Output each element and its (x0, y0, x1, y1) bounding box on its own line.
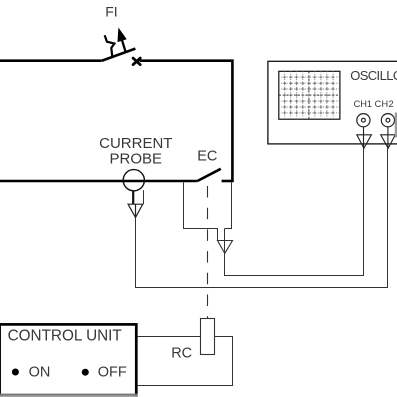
current probe circle (123, 170, 144, 191)
current probe arrow (128, 204, 143, 217)
breaker FI blade (101, 49, 135, 61)
svg-text:OSCILLOSCOPE: OSCILLOSCOPE (350, 68, 397, 83)
device under test enclosure (big rectangle, cut off at left) (0, 59, 234, 181)
indicator OFF (82, 369, 89, 376)
breaker FI contact x mark (133, 58, 140, 65)
oscilloscope screen (279, 71, 340, 119)
control unit box (0, 324, 136, 397)
wire probe center through apex down to CH1 bus (225, 148, 364, 275)
breaker FI actuator arrow (122, 39, 126, 52)
gray edge artifact right side (395, 113, 397, 138)
switch EC blade (197, 169, 220, 181)
wire EC left contact down to probe (184, 183, 218, 241)
relay coil RC (201, 319, 215, 355)
svg-text:CH1: CH1 (354, 99, 372, 109)
current probe lead thick (132, 192, 134, 205)
svg-text:FI: FI (105, 3, 117, 19)
svg-text:PROBE: PROBE (110, 151, 163, 168)
svg-text:ON: ON (29, 364, 51, 380)
breaker FI release squiggle (105, 35, 115, 57)
BNC connector CH1 (357, 114, 370, 127)
wire current probe down to CH2 bus (136, 148, 388, 287)
oscilloscope box (268, 61, 397, 144)
svg-text:OFF: OFF (98, 364, 127, 380)
svg-text:EC: EC (197, 149, 217, 165)
graticule intersection ticks (283, 76, 334, 115)
oscilloscope graticule (279, 71, 340, 119)
CH1 probe arrow (357, 127, 372, 148)
graticule center lines (279, 71, 340, 119)
control unit bottom gray edge (0, 394, 138, 396)
svg-text:RC: RC (171, 345, 192, 361)
wire RC return loop (138, 337, 233, 386)
wire EC right contact down with jog (225, 183, 232, 229)
indicator ON (12, 369, 19, 376)
dashed mechanical link EC to RC (207, 186, 209, 319)
BNC connector CH2 (381, 114, 394, 127)
current probe lead thin (143, 190, 145, 204)
svg-text:CONTROL UNIT: CONTROL UNIT (8, 328, 122, 345)
svg-text:CH2: CH2 (375, 99, 394, 109)
EC probe arrow (218, 241, 233, 254)
CH2 probe arrow (381, 127, 396, 148)
wire control unit to RC (138, 336, 201, 338)
